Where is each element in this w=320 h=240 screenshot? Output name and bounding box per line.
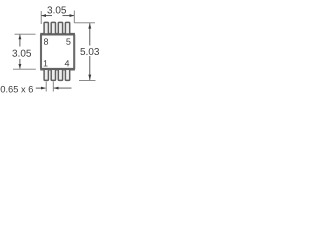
- pin 8 lead (top row 1st): [44, 22, 48, 34]
- bottom pitch dimension: left arrow pointing right: [36, 87, 46, 90]
- pin number 8: [44, 38, 48, 44]
- bottom pitch dimension: extension line from pin 1: [45, 82, 47, 92]
- top dimension 3.05: right arrow: [63, 14, 75, 17]
- pin number 5: [66, 39, 70, 45]
- bottom pitch label 0.65 x 6: [1, 86, 33, 93]
- top dimension label 3.05: [47, 6, 66, 13]
- right dimension 5.03: top extension line: [74, 22, 95, 24]
- top dimension 3.05: right extension line: [73, 11, 75, 23]
- left dimension 3.05: bottom extension line: [13, 68, 36, 70]
- pin number 4: [65, 60, 70, 66]
- top dimension 3.05: left extension line: [40, 11, 42, 24]
- top dimension 3.05: left arrow: [41, 14, 52, 17]
- pin 2 lead: [51, 69, 55, 80]
- pin 3 lead: [58, 69, 62, 80]
- left dimension 3.05: top extension line: [15, 33, 36, 35]
- package body U1: [40, 34, 75, 69]
- right dimension label 5.03: [80, 48, 99, 55]
- pin 5 lead: [65, 22, 69, 34]
- pin 6 lead: [58, 22, 62, 34]
- pin 1 lead (bottom row 1st): [44, 69, 48, 80]
- pin 4 lead: [65, 69, 69, 80]
- right dimension 5.03: bottom extension line: [79, 79, 96, 81]
- right dimension 5.03: lower line and down arrow: [88, 56, 91, 80]
- left dimension 3.05: lower stem and down arrow: [18, 59, 21, 69]
- pin number 1: [44, 60, 48, 66]
- bottom pitch dimension: right arrow pointing left: [54, 87, 72, 90]
- pin 7 lead: [51, 22, 55, 34]
- left dimension label 3.05: [12, 50, 31, 57]
- bottom pitch dimension: extension line from pin 2: [52, 82, 54, 92]
- left dimension 3.05: upper stem and up arrow: [18, 35, 21, 47]
- right dimension 5.03: upper line and up arrow: [88, 23, 91, 45]
